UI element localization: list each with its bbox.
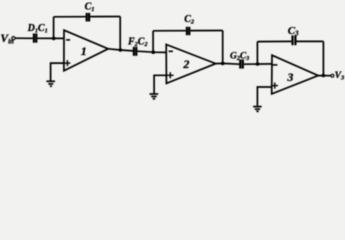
U1 minus input tick bbox=[66, 39, 70, 41]
op-amp U3 bbox=[272, 55, 319, 94]
svg-text:3: 3 bbox=[286, 70, 293, 84]
wire feedback 2 right vertical bbox=[222, 31, 224, 64]
op-amp U2 bbox=[166, 45, 216, 84]
wire feedback 3 right vertical bbox=[322, 41, 324, 75]
wire feedback 2 left vertical bbox=[152, 31, 154, 52]
node C (stage2 summing node) bbox=[152, 50, 156, 54]
wire U1 output bbox=[108, 49, 133, 51]
input terminal Vin bbox=[12, 37, 15, 40]
U3 minus input tick bbox=[273, 64, 278, 66]
U2 plus sign bbox=[167, 72, 174, 78]
wire feedback 2 top left segment bbox=[153, 30, 186, 32]
wire U3 plus input to ground bbox=[257, 87, 271, 106]
output terminal bbox=[331, 74, 334, 77]
U2 minus input tick bbox=[169, 50, 173, 52]
node F (output junction) bbox=[322, 74, 326, 78]
capacitor D1C1 bbox=[34, 34, 36, 43]
svg-text:1: 1 bbox=[81, 44, 87, 58]
ground 2 bbox=[150, 94, 159, 99]
wire U2 plus input to ground bbox=[154, 75, 166, 93]
U3 plus sign bbox=[272, 83, 278, 89]
capacitor G2C3 bbox=[240, 59, 243, 68]
ground 1 bbox=[46, 81, 55, 86]
wire input terminal to capacitor D1C1 bbox=[15, 37, 33, 39]
node B (stage1 output junction) bbox=[119, 48, 123, 52]
capacitor C2 bbox=[187, 27, 189, 35]
wire feedback 1 left vertical bbox=[53, 17, 55, 39]
ground 3 bbox=[253, 107, 262, 112]
wire feedback 1 right vertical bbox=[119, 17, 121, 51]
wire feedback 3 left vertical bbox=[256, 42, 258, 64]
capacitor C3 bbox=[293, 35, 296, 45]
svg-text:D1C1: D1C1 bbox=[27, 23, 48, 34]
capacitor C1 bbox=[87, 13, 89, 22]
wire U3 output bbox=[318, 75, 331, 77]
node A (stage1 summing node) bbox=[52, 37, 56, 41]
wire cap F2C2 to op-amp 2 inverting input bbox=[137, 51, 166, 52]
U1 plus sign bbox=[64, 60, 70, 66]
wire cap G2C3 to op-amp 3 inverting input bbox=[244, 63, 272, 65]
wire feedback 3 top right segment bbox=[297, 40, 324, 42]
wire feedback 3 top left segment bbox=[257, 40, 291, 42]
wire cap D1C1 to op-amp 1 inverting input bbox=[37, 37, 64, 39]
wire feedback 1 top right segment bbox=[90, 16, 120, 18]
wire U1 plus input to ground bbox=[51, 63, 64, 81]
wire feedback 1 top left segment bbox=[54, 16, 86, 18]
node E (stage3 summing node) bbox=[256, 62, 260, 66]
capacitor F2C2 bbox=[134, 47, 136, 56]
op-amp U1 bbox=[64, 30, 108, 71]
wire U2 output bbox=[216, 62, 240, 65]
wire feedback 2 top right segment bbox=[190, 30, 222, 32]
node D (stage2 output junction) bbox=[221, 62, 225, 66]
svg-text:2: 2 bbox=[182, 57, 189, 71]
